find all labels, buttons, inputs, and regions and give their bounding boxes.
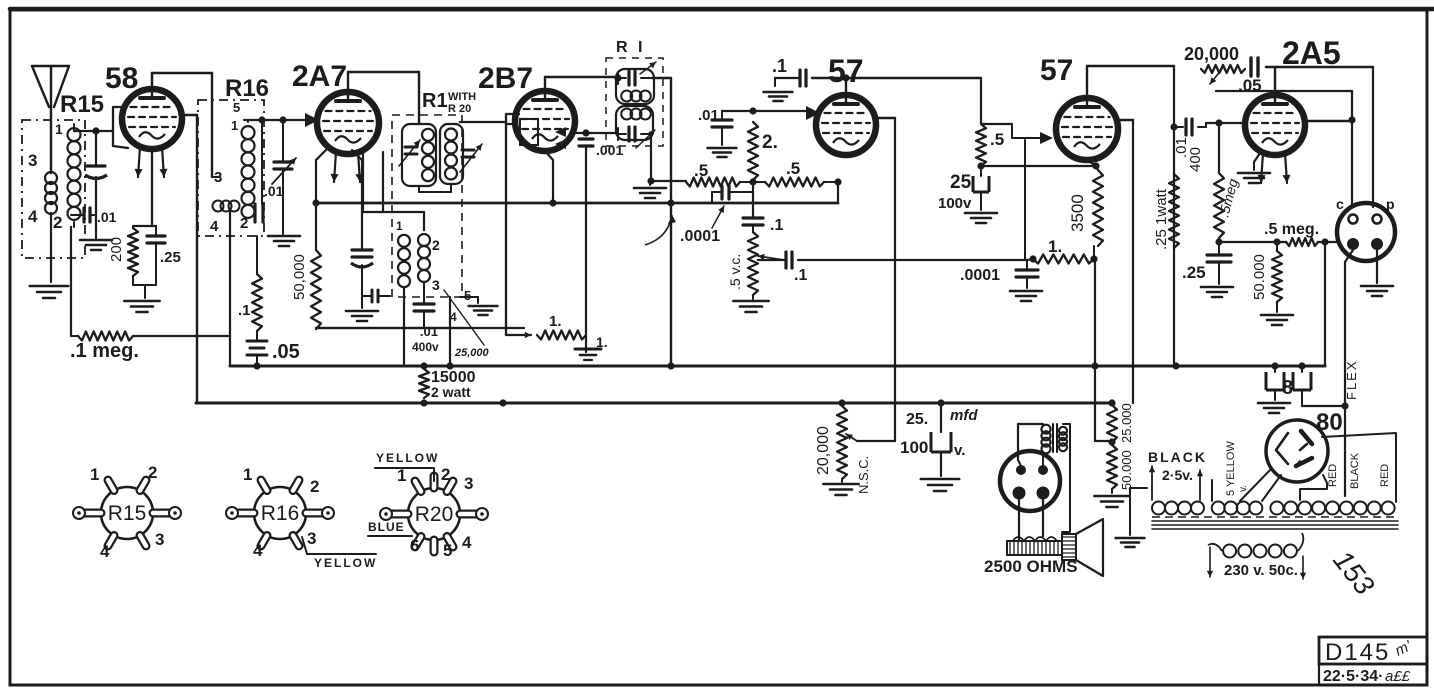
tube 2A5 <box>1245 95 1305 155</box>
svg-text:.1: .1 <box>794 267 807 284</box>
pin 5 terminal <box>212 176 220 178</box>
ground (IF) <box>649 181 651 185</box>
ground (20,000) <box>841 479 843 482</box>
tube 57 first <box>816 95 876 155</box>
2B7 grid bracket <box>506 114 519 124</box>
ground (8 left) <box>1258 402 1290 405</box>
speaker socket <box>1000 451 1060 511</box>
divider 50.000 <box>1107 445 1117 489</box>
svg-text:4: 4 <box>210 218 219 235</box>
pot wiper <box>758 256 784 260</box>
2B7 cathode wire <box>545 151 553 160</box>
bobbin humps <box>1013 537 1057 541</box>
IF left stubs <box>617 72 619 84</box>
svg-text:3: 3 <box>155 530 164 549</box>
svg-text:v.: v. <box>954 442 965 459</box>
svg-text:R15: R15 <box>108 502 147 525</box>
svg-text:2: 2 <box>310 477 319 496</box>
57 plate wire down <box>874 117 895 119</box>
resistor 15000 2 watt <box>419 369 429 398</box>
speaker pin LR <box>1037 487 1050 500</box>
svg-text:BLUE: BLUE <box>368 520 405 534</box>
57b top wire <box>1086 66 1088 98</box>
speaker cone <box>1076 519 1103 576</box>
R1 IF dashed box <box>606 58 663 146</box>
cap .25 (cathode?) <box>1218 242 1220 255</box>
svg-text:1.: 1. <box>1048 237 1062 256</box>
svg-text:v.: v. <box>1238 485 1249 492</box>
coupling cap .01 400 <box>1174 126 1183 128</box>
R16 secondary coil <box>242 126 255 139</box>
resistor 1. (diode load) <box>1033 255 1094 264</box>
svg-text:1: 1 <box>243 465 252 484</box>
svg-text:400: 400 <box>1187 147 1204 172</box>
screen .5 resistor <box>980 78 982 124</box>
58 right wire down <box>181 114 197 116</box>
svg-text:400v: 400v <box>412 340 439 354</box>
ground (trimmer) <box>268 235 300 238</box>
2B7 plate wire <box>544 77 546 91</box>
svg-text:3: 3 <box>464 474 473 493</box>
antenna series coil <box>45 172 57 184</box>
svg-text:50,000: 50,000 <box>291 254 308 300</box>
2B7 diode box <box>520 119 538 145</box>
line 50,000 bottom right <box>315 328 317 329</box>
speaker wires up <box>1018 460 1021 466</box>
ground (grid cap) <box>80 239 112 242</box>
bus A (AVC bus) <box>316 202 838 205</box>
svg-text:.0001: .0001 <box>680 228 720 245</box>
ground (det) <box>1010 290 1042 293</box>
svg-text:FLEX: FLEX <box>1344 359 1359 400</box>
tube 57 second <box>1056 98 1118 160</box>
tank bottoms join <box>418 186 420 192</box>
57 top wire <box>842 74 849 81</box>
svg-text:.01: .01 <box>264 183 284 199</box>
svg-text:.0001: .0001 <box>960 267 1000 284</box>
transformer left ground <box>1129 488 1131 535</box>
57b plate wire <box>1116 119 1133 121</box>
svg-text:22·5·34·: 22·5·34· <box>1323 668 1383 685</box>
filter cap 8 left <box>1271 362 1278 369</box>
svg-text:BLACK: BLACK <box>1148 449 1207 465</box>
svg-text:2A5: 2A5 <box>1282 35 1341 71</box>
80 plate 2 <box>1296 458 1312 466</box>
ground small on line <box>575 348 601 351</box>
wire .5 right down <box>837 182 839 203</box>
socket R16 diagram <box>254 487 306 539</box>
antenna coil R15 secondary <box>68 128 81 141</box>
svg-text:3: 3 <box>307 529 316 548</box>
svg-text:.25: .25 <box>160 249 181 266</box>
resistor 50.000 (2A5) <box>1276 242 1278 251</box>
svg-text:.5 v.c.: .5 v.c. <box>727 254 743 290</box>
svg-text:.1: .1 <box>238 302 251 319</box>
svg-text:50.000: 50.000 <box>1119 450 1134 490</box>
ground (antenna) <box>30 285 68 288</box>
primary arrows <box>1209 547 1211 577</box>
IF tank box lower <box>616 106 653 140</box>
tube 80 <box>1266 420 1328 482</box>
annotation line <box>444 290 484 345</box>
svg-text:2·5v.: 2·5v. <box>1162 467 1193 483</box>
ground (25mfd) <box>921 478 959 481</box>
resistor 2. <box>748 122 758 180</box>
HV lead red 2 <box>1322 433 1396 502</box>
speaker pin UR <box>1038 465 1048 475</box>
IF bottom to ground <box>650 136 652 181</box>
screen cap 25/100v <box>980 166 982 174</box>
osc coil left lead down <box>403 288 405 366</box>
58 grid bracket <box>113 107 128 148</box>
svg-text:.05: .05 <box>1238 76 1262 95</box>
2A7 screen cap <box>352 150 362 160</box>
wire x1174 down <box>1173 66 1175 366</box>
svg-text:R I: R I <box>616 39 645 56</box>
svg-text:4: 4 <box>28 207 38 226</box>
pot wiper (20,000) <box>846 434 857 441</box>
capacitor (tuning, 58 grid) <box>95 131 97 166</box>
svg-text:R16: R16 <box>225 75 269 102</box>
svg-text:1.: 1. <box>549 313 562 330</box>
pin lower-right <box>1371 238 1383 250</box>
join + ground (58 cathode) <box>132 276 134 285</box>
resistor .25 1watt <box>1169 174 1179 248</box>
svg-text:RED: RED <box>1327 464 1339 487</box>
svg-text:.5: .5 <box>786 159 800 178</box>
57 grid cap arrow <box>806 106 820 120</box>
resistor .5 left <box>686 178 740 187</box>
IF right wire <box>652 77 671 79</box>
junction dots bus <box>446 362 453 369</box>
capacitor .01 (ant) <box>71 214 84 216</box>
R16 pin4 wire down <box>229 210 231 337</box>
tube 2B7 <box>515 91 575 151</box>
svg-text:YELLOW: YELLOW <box>314 556 377 570</box>
osc cap .01 <box>423 282 425 304</box>
80 plate 1 <box>1301 431 1312 444</box>
cap .1 (AVC line) <box>758 259 786 261</box>
svg-text:.01: .01 <box>420 324 438 339</box>
resistor .1 meg <box>78 332 133 341</box>
variable capacitor right <box>462 149 474 152</box>
wire 3500 to bus <box>1093 246 1095 259</box>
IF coil 2 <box>621 109 632 120</box>
output transformer core <box>1052 424 1054 452</box>
57b cathode <box>1087 160 1096 166</box>
2A5 top wire <box>1274 67 1276 95</box>
svg-text:4: 4 <box>253 541 263 560</box>
svg-text:3500: 3500 <box>1068 194 1087 232</box>
svg-text:2 watt: 2 watt <box>431 384 471 400</box>
socket R15 diagram <box>101 487 153 539</box>
capacitor .25 <box>155 226 157 236</box>
2B7 grid return down <box>505 124 507 335</box>
svg-text:.5: .5 <box>990 130 1004 149</box>
svg-text:.01: .01 <box>97 209 117 225</box>
svg-text:.25 1watt: .25 1watt <box>1153 188 1170 250</box>
bus C (B+) <box>196 402 1112 405</box>
svg-text:3: 3 <box>214 169 222 186</box>
HV lead red 1 <box>1300 475 1327 500</box>
2A7 grid cap arrow <box>305 113 319 127</box>
svg-text:1: 1 <box>55 121 63 137</box>
capacitor .01 (R16) <box>261 120 263 204</box>
2.5v arrows <box>1151 466 1153 500</box>
svg-text:BLACK: BLACK <box>1349 452 1361 489</box>
variable capacitor left <box>405 146 417 149</box>
svg-text:c: c <box>1336 196 1344 212</box>
grid return x447 <box>449 297 451 366</box>
58 plate wire to top <box>151 73 154 89</box>
svg-text:R15: R15 <box>60 91 104 118</box>
bus B <box>230 365 1325 368</box>
grid return line <box>1219 241 1286 243</box>
IF cap 1 <box>618 77 626 79</box>
pin p <box>1373 215 1382 224</box>
2A5 grid node <box>1215 119 1222 126</box>
2B7 diode wire + .001 <box>573 132 618 134</box>
grid leak bottom node <box>1215 238 1222 245</box>
svg-text:2A7: 2A7 <box>292 60 347 93</box>
screen bleeder line <box>316 327 462 329</box>
speaker wires down <box>1018 499 1020 541</box>
svg-text:5: 5 <box>443 541 452 560</box>
svg-text:8: 8 <box>1282 377 1293 399</box>
svg-text:2: 2 <box>53 213 62 232</box>
R1-R20 dashed box <box>392 115 462 297</box>
svg-text:R1: R1 <box>422 90 448 112</box>
speaker field wire <box>1062 424 1070 532</box>
svg-text:2500 OHMS: 2500 OHMS <box>984 557 1078 576</box>
svg-text:mfd: mfd <box>950 407 978 424</box>
ground (pot) <box>752 295 754 299</box>
tube 58 <box>122 89 182 149</box>
svg-text:50.000: 50.000 <box>1251 254 1268 300</box>
svg-text:57: 57 <box>1040 54 1073 87</box>
svg-text:R16: R16 <box>261 502 300 525</box>
IF tank box upper <box>616 69 654 104</box>
resistor .5 meg. (horizontal) <box>1286 238 1318 246</box>
ground (diode line) <box>575 351 601 353</box>
osc coil 1 <box>398 235 410 247</box>
resistor 1. (osc) <box>506 334 531 336</box>
IF coil 1 <box>621 91 632 102</box>
svg-text:230 v. 50c.: 230 v. 50c. <box>1224 562 1298 579</box>
svg-text:2.: 2. <box>762 132 778 153</box>
svg-text:5: 5 <box>233 100 240 115</box>
R20 blue lead <box>368 535 412 537</box>
wire gnd node to .5 res <box>650 180 686 182</box>
ground (2A7 screen) <box>346 310 378 313</box>
feedback line <box>1216 90 1352 92</box>
tank coil left <box>422 129 434 141</box>
R20 yellow lead <box>375 468 434 481</box>
IF cap 2 <box>618 133 626 135</box>
speaker magnet <box>1062 534 1076 560</box>
svg-text:.1: .1 <box>772 56 787 76</box>
svg-text:.5 meg.: .5 meg. <box>1264 221 1319 238</box>
wire busB to divider tap <box>1095 440 1110 442</box>
2A7 cathode wire to bus <box>316 146 330 160</box>
curved annotation arrow <box>645 215 672 245</box>
2A7 osc wire <box>362 152 364 212</box>
socket ground <box>1376 250 1378 283</box>
svg-text:.1 meg.: .1 meg. <box>70 340 139 362</box>
wire to P pin <box>1372 67 1374 207</box>
junction dots <box>749 178 756 185</box>
svg-text:4: 4 <box>100 542 110 561</box>
filter cap 8 right <box>1298 362 1305 369</box>
title box <box>1319 637 1427 664</box>
svg-text:N.S.C.: N.S.C. <box>856 456 871 494</box>
osc coil 2 <box>418 234 430 246</box>
resistor 200 <box>128 228 138 276</box>
pin c <box>1349 215 1358 224</box>
cap .0001 stub <box>711 192 713 203</box>
wire x671 busA-busB <box>670 78 672 366</box>
resistor .1 (AVC) <box>256 236 258 274</box>
57 grid wire <box>753 110 812 112</box>
svg-text:20,000: 20,000 <box>815 426 832 475</box>
5v winding <box>1212 502 1225 515</box>
svg-text:.1: .1 <box>770 217 783 234</box>
svg-text:100v: 100v <box>938 195 972 212</box>
wire coil top to grid <box>73 124 75 131</box>
ground (screen) <box>965 212 997 215</box>
resistor 3500 <box>1096 166 1098 170</box>
transformer core <box>1152 520 1398 522</box>
tank box left <box>402 124 436 186</box>
svg-text:.001: .001 <box>596 142 623 158</box>
svg-text:D145: D145 <box>1325 639 1390 666</box>
svg-text:2: 2 <box>148 463 157 482</box>
wire x212 down to R16 pri <box>211 73 213 177</box>
svg-text:2B7: 2B7 <box>478 62 533 95</box>
output transformer primary <box>1042 425 1051 434</box>
5v winding leads <box>1211 480 1213 501</box>
ground (50.000) <box>1276 302 1278 312</box>
2A5 cathode ground <box>1254 150 1262 162</box>
svg-text:.25: .25 <box>1182 263 1206 282</box>
resistor 50,000 <box>315 203 317 250</box>
svg-text:2: 2 <box>441 465 450 484</box>
svg-text:5 YELLOW: 5 YELLOW <box>1225 441 1237 496</box>
wire coil bottom down <box>73 222 75 227</box>
small coil 090 <box>213 201 224 212</box>
svg-text:WITH: WITH <box>448 91 476 103</box>
resistor .5 right <box>753 181 765 183</box>
svg-text:R20: R20 <box>415 503 454 526</box>
grid wire to 2A7 <box>247 120 249 122</box>
pin lower-left <box>1347 238 1359 250</box>
svg-text:6: 6 <box>410 536 419 555</box>
pot 20,000 N.S.C. <box>838 399 845 406</box>
tank coil right <box>445 129 457 141</box>
svg-text:1: 1 <box>231 118 238 133</box>
tube 2A7 <box>317 92 379 154</box>
2B7 grid wire <box>460 121 506 123</box>
feedback cap .05 <box>1249 58 1252 76</box>
resistor .5meg (grid leak) <box>1218 123 1220 173</box>
57 cathode chain <box>752 182 754 218</box>
58 cathode network stem <box>151 149 153 226</box>
flex to 80 / HV center tap <box>1344 406 1346 496</box>
ground (.25) <box>1201 286 1233 289</box>
primary winding 230v <box>1223 545 1236 558</box>
svg-text:1: 1 <box>90 465 99 484</box>
80 filament <box>1276 433 1288 464</box>
svg-text:a££: a££ <box>1385 668 1411 685</box>
2A7 plate wire <box>347 72 349 92</box>
divider 25.000 <box>1108 399 1115 406</box>
svg-text:3: 3 <box>432 277 440 293</box>
svg-text:5: 5 <box>464 288 471 303</box>
R16 yellow lead <box>302 537 376 554</box>
2A5 plate wire <box>1305 120 1352 122</box>
antenna <box>32 65 69 67</box>
bus B corner up <box>1324 242 1326 366</box>
svg-text:.05: .05 <box>272 341 300 363</box>
R16 dashed box <box>198 100 264 236</box>
svg-text:200: 200 <box>108 237 125 262</box>
cap .0001 (det) <box>1026 261 1028 270</box>
HV winding <box>1270 502 1283 515</box>
small cap (osc grid) <box>362 295 372 297</box>
tank box right <box>440 124 463 184</box>
svg-text:1.: 1. <box>596 334 608 350</box>
2.5v winding <box>1152 502 1165 515</box>
ground (divider) <box>1111 489 1113 493</box>
svg-text:3: 3 <box>28 151 37 170</box>
R15 coil-pack dashed box <box>22 120 85 258</box>
svg-text:2: 2 <box>432 237 440 253</box>
trimmer cap (R16) <box>282 120 284 162</box>
svg-text:25.000: 25.000 <box>1119 403 1134 443</box>
svg-text:25,000: 25,000 <box>454 347 490 359</box>
svg-text:58: 58 <box>105 62 138 95</box>
svg-text:4: 4 <box>462 533 472 552</box>
svg-text:20,000: 20,000 <box>1184 44 1239 64</box>
output socket <box>1337 203 1395 261</box>
svg-text:p: p <box>1386 196 1395 212</box>
electrolytic 25 mfd <box>937 399 944 406</box>
2B7 diode arrows <box>555 127 566 137</box>
socket R20 diagram <box>408 488 460 540</box>
svg-text:.5: .5 <box>694 161 708 180</box>
wire grid to det node <box>1027 259 1033 260</box>
svg-text:R 20: R 20 <box>448 103 471 115</box>
57b grid wire <box>981 123 1012 125</box>
svg-text:25.: 25. <box>906 411 928 428</box>
socket flex lead <box>1345 250 1353 406</box>
speaker pin LL <box>1013 487 1026 500</box>
svg-text:100: 100 <box>900 438 928 457</box>
svg-text:RED: RED <box>1379 464 1391 487</box>
svg-text:1: 1 <box>396 219 403 233</box>
output transformer secondary <box>1059 427 1067 435</box>
pot .5 v.c. <box>748 232 758 295</box>
speaker pin UL <box>1016 465 1026 475</box>
svg-text:25: 25 <box>950 172 972 193</box>
capacitor .05 to bus <box>256 331 258 341</box>
svg-text:2: 2 <box>240 215 248 232</box>
svg-text:YELLOW: YELLOW <box>376 451 439 465</box>
voice coil bobbin <box>1007 541 1062 555</box>
